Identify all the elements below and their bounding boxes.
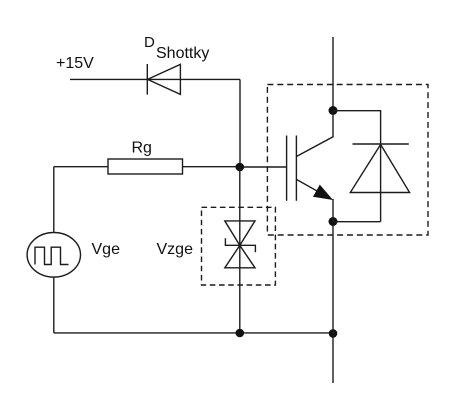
wire gate node to IGBT gate (240, 166, 287, 168)
node collector junction (329, 106, 338, 115)
wire collector top (332, 37, 334, 111)
node bottom emitter junction (329, 329, 338, 338)
node emitter junction (329, 217, 338, 226)
wire bottom rail (54, 332, 333, 334)
wire diode to emitter (333, 221, 381, 223)
svg-text:Vge: Vge (92, 241, 121, 258)
resistor Rg (108, 159, 183, 174)
svg-text:Rg: Rg (132, 140, 152, 157)
wire left rail upper (53, 167, 55, 233)
transistor Q1 IGBT (287, 111, 333, 222)
wire collector to diode (333, 111, 381, 144)
wire +15V rail (70, 78, 240, 80)
svg-text:+15V: +15V (56, 55, 94, 72)
wire Vzge drop (239, 167, 241, 333)
svg-text:Shottky: Shottky (156, 45, 209, 62)
svg-text:D: D (144, 34, 155, 51)
diode freewheel (350, 144, 409, 222)
svg-text:Vzge: Vzge (157, 241, 194, 258)
node gate junction (236, 163, 245, 172)
node bottom Vzge junction (236, 329, 245, 338)
wire right drop from +15V to gate node (239, 79, 241, 167)
wire emitter bottom (332, 222, 334, 384)
source Vge (27, 233, 80, 278)
module outline Vzge dashed box (202, 207, 276, 285)
diode D_Shottky (147, 64, 180, 95)
module outline IGBT dashed box (267, 85, 428, 236)
wire left rail lower (53, 277, 55, 333)
wire resistor to gate node (183, 166, 240, 168)
zener Vzge (225, 221, 256, 268)
wire gate net left segment (54, 166, 108, 168)
